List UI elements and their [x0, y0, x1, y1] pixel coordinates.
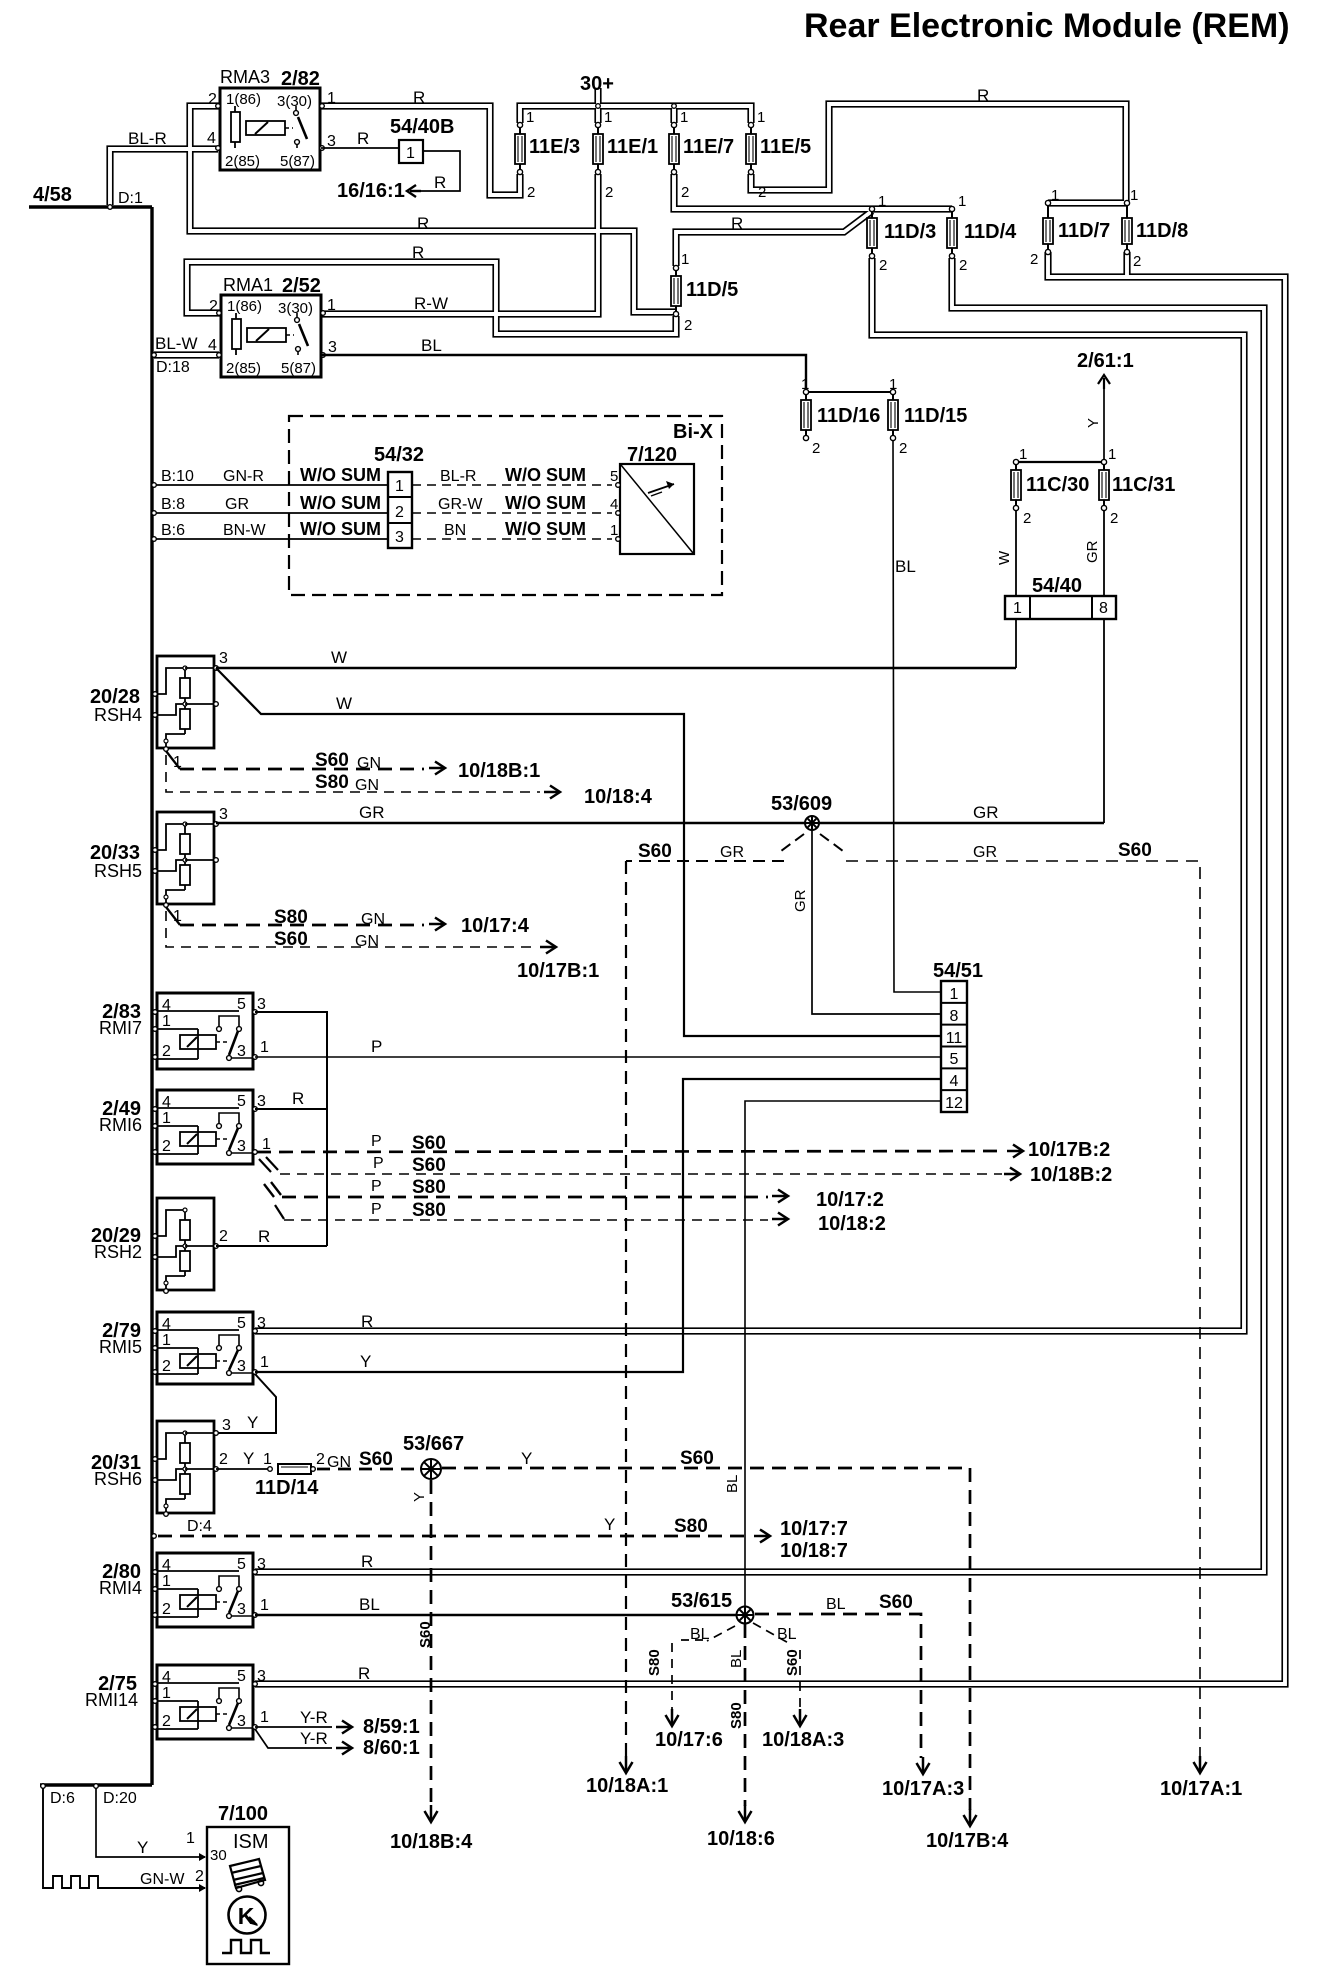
svg-text:R-W: R-W	[414, 294, 448, 313]
svg-text:BL: BL	[826, 1596, 846, 1613]
svg-text:2: 2	[162, 1358, 171, 1375]
svg-text:3: 3	[257, 1556, 266, 1573]
svg-text:2: 2	[1023, 510, 1031, 527]
wire W upper from 20/28	[216, 667, 1016, 669]
svg-text:S60: S60	[784, 1649, 801, 1676]
junction 30+ bus at 11E/1	[596, 104, 601, 109]
relay RMI5 2/79	[157, 1312, 253, 1384]
relay RMA1 2/52	[221, 295, 321, 377]
node 4/58 supply line	[29, 205, 152, 208]
fuse bridge 11D/16-11D/15	[806, 391, 893, 393]
svg-text:W/O SUM: W/O SUM	[300, 493, 381, 513]
svg-text:1: 1	[801, 376, 809, 393]
svg-text:W/O SUM: W/O SUM	[300, 519, 381, 539]
wire 30+ supply stub	[594, 88, 601, 106]
wire R from 11D/7 pin2 to relay 2/75 pin3	[255, 252, 1285, 1684]
wire R from 2/49 pin3	[255, 1108, 327, 1110]
wire R from 11E/5 pin2 to 11D/8 pin1	[751, 104, 1126, 203]
svg-text:1: 1	[1130, 187, 1138, 204]
heater RSH2 20/29	[157, 1198, 214, 1290]
svg-text:10/17A:3: 10/17A:3	[882, 1778, 964, 1800]
svg-text:2: 2	[316, 1451, 325, 1468]
svg-text:1: 1	[162, 1332, 171, 1349]
svg-text:7/120: 7/120	[627, 444, 677, 466]
wire to 16/16:1	[421, 151, 460, 191]
svg-text:D:6: D:6	[50, 1790, 75, 1807]
svg-text:S80: S80	[646, 1649, 663, 1676]
svg-text:10/18:2: 10/18:2	[818, 1213, 886, 1235]
fuse 11D/15	[892, 394, 894, 400]
wire GN-W square wave from D:6 to ISM	[43, 1788, 205, 1888]
svg-text:2: 2	[219, 1228, 228, 1245]
svg-text:R: R	[292, 1089, 304, 1108]
svg-text:11D/16: 11D/16	[817, 405, 880, 427]
svg-text:R: R	[358, 1664, 370, 1683]
wire R from 11E/7 pin2 to 11D/3 and 11D/4 pin1	[674, 174, 952, 209]
svg-text:BL: BL	[690, 1626, 710, 1643]
svg-text:1: 1	[680, 109, 688, 126]
svg-text:3: 3	[222, 1417, 231, 1434]
wire W lower from 20/28 to 54/51 pin11	[216, 668, 941, 1036]
svg-text:RSH6: RSH6	[94, 1469, 142, 1489]
dashed BL S60 from splice to 10/17A:3	[755, 1614, 921, 1758]
svg-text:10/18B:4: 10/18B:4	[390, 1831, 473, 1853]
svg-text:Y: Y	[604, 1515, 615, 1534]
svg-text:GR-W: GR-W	[438, 496, 483, 513]
svg-text:2/52: 2/52	[282, 275, 321, 297]
svg-text:10/17A:1: 10/17A:1	[1160, 1778, 1242, 1800]
svg-text:S80: S80	[728, 1702, 745, 1729]
terminal B:10 wire GN-R	[154, 484, 388, 486]
svg-text:Y: Y	[521, 1449, 532, 1468]
svg-text:2: 2	[812, 440, 820, 457]
svg-text:2: 2	[605, 184, 613, 201]
terminal B:8 wire GR	[154, 512, 388, 514]
wire GR from 20/33	[216, 822, 1104, 824]
fuse 11E/3	[519, 127, 521, 134]
svg-text:GN: GN	[357, 755, 381, 772]
svg-text:11C/31: 11C/31	[1112, 474, 1175, 496]
svg-text:K: K	[238, 1903, 255, 1929]
heater RSH5 20/33	[157, 812, 214, 904]
svg-text:10/18:4: 10/18:4	[584, 786, 653, 808]
svg-text:R: R	[357, 129, 369, 148]
svg-text:2: 2	[209, 298, 218, 315]
svg-text:2/61:1: 2/61:1	[1077, 350, 1134, 372]
svg-text:10/18:6: 10/18:6	[707, 1828, 775, 1850]
svg-text:R: R	[731, 214, 743, 233]
dashed GN S60 to splice 53/667	[317, 1468, 419, 1471]
svg-text:10/18A:3: 10/18A:3	[762, 1729, 844, 1751]
svg-text:GR: GR	[792, 889, 809, 912]
svg-text:53/609: 53/609	[771, 793, 832, 815]
svg-text:3: 3	[257, 996, 266, 1013]
wire BL from RMA1	[321, 355, 806, 390]
wire R from 20/29	[216, 1245, 327, 1247]
svg-text:11E/5: 11E/5	[760, 136, 811, 158]
svg-text:11D/5: 11D/5	[686, 279, 738, 301]
svg-text:1(86): 1(86)	[226, 91, 261, 108]
wire R from RMA1 coil pin2 to fuse 11D/5 pin2	[187, 262, 676, 334]
svg-text:GN: GN	[361, 911, 385, 928]
svg-text:S60: S60	[680, 1448, 714, 1469]
svg-text:3: 3	[219, 650, 228, 667]
svg-text:Y: Y	[247, 1413, 258, 1432]
svg-text:Y: Y	[411, 1492, 428, 1502]
svg-text:Y-R: Y-R	[300, 1729, 328, 1748]
svg-text:1: 1	[950, 986, 959, 1003]
svg-text:BL-R: BL-R	[440, 468, 476, 485]
wire P from 2/83 pin1 to 54/51 pin5	[255, 1056, 941, 1058]
svg-text:BL-W: BL-W	[155, 334, 198, 353]
wire R from RMA3 coil pin2 to fuse 11D/5 pin2	[190, 106, 676, 312]
svg-text:Rear Electronic Module (REM): Rear Electronic Module (REM)	[804, 7, 1290, 45]
fuse 11D/16	[805, 394, 807, 400]
svg-text:1: 1	[260, 1709, 269, 1726]
svg-text:10/18:7: 10/18:7	[780, 1540, 848, 1562]
fuse 11D/3	[871, 211, 873, 218]
svg-text:3: 3	[395, 529, 404, 546]
svg-text:2: 2	[219, 1451, 228, 1468]
svg-text:2: 2	[1030, 251, 1038, 268]
svg-text:11: 11	[946, 1030, 963, 1047]
junction 30+ bus at 11E/7	[672, 104, 677, 109]
svg-text:S80: S80	[412, 1177, 446, 1198]
svg-text:8: 8	[1099, 600, 1108, 617]
ISM louvre icon	[230, 1859, 265, 1892]
svg-text:10/18A:1: 10/18A:1	[586, 1775, 668, 1797]
dashed Y from 53/667 down to 10/18B:4	[430, 1480, 433, 1806]
wire GR to 54/40 pin8	[1103, 510, 1105, 596]
svg-text:53/667: 53/667	[403, 1433, 464, 1455]
svg-text:W: W	[336, 694, 352, 713]
dashed P S80 to 10/17:2	[264, 1184, 274, 1197]
svg-text:16/16:1: 16/16:1	[337, 180, 405, 202]
svg-text:1: 1	[878, 193, 886, 210]
svg-text:Y-R: Y-R	[300, 1708, 328, 1727]
wire Y-R to 8/59:1	[255, 1726, 332, 1728]
svg-text:10/17B:4: 10/17B:4	[926, 1830, 1009, 1852]
svg-text:30+: 30+	[580, 73, 614, 95]
svg-text:11E/3: 11E/3	[529, 136, 580, 158]
svg-text:P: P	[371, 1178, 382, 1195]
svg-text:30: 30	[210, 1847, 227, 1864]
wire BL from 54/51 pin12 down to splice	[745, 1101, 941, 1607]
svg-text:GR: GR	[973, 844, 997, 861]
dashed BL S80 from splice down to 10/18:6	[744, 1624, 747, 1806]
main bus wire from 4/58	[150, 207, 153, 1785]
wire GR from 54/40 down to GR line	[1103, 619, 1105, 823]
svg-text:RSH2: RSH2	[94, 1242, 142, 1262]
svg-text:2(85): 2(85)	[225, 153, 260, 170]
dashed wire GR-W to 7/120 pin4	[412, 512, 612, 514]
fuse 11E/1	[597, 127, 599, 134]
svg-text:4: 4	[208, 337, 217, 354]
svg-text:S80: S80	[315, 772, 349, 793]
wire R-W from RMA1 pin1 to fuse 11E/1 pin2	[321, 174, 598, 314]
svg-text:2/82: 2/82	[281, 68, 320, 90]
svg-text:RMI14: RMI14	[85, 1690, 138, 1710]
wire Y from 20/31 pin2	[216, 1468, 268, 1470]
white cores of hollow double-line wires	[190, 106, 676, 312]
relay RMI14 2/75	[157, 1665, 253, 1739]
svg-text:BL: BL	[421, 336, 442, 355]
svg-text:S60: S60	[274, 929, 308, 950]
svg-text:S60: S60	[879, 1592, 913, 1613]
svg-text:BL: BL	[777, 1626, 797, 1643]
svg-text:GN-R: GN-R	[223, 468, 264, 485]
svg-text:GN-W: GN-W	[140, 1871, 185, 1888]
svg-text:54/51: 54/51	[933, 960, 983, 982]
svg-text:1: 1	[1108, 446, 1116, 463]
svg-text:2: 2	[959, 257, 967, 274]
ISM square wave icon	[222, 1940, 270, 1953]
dashed S60 GN to 10/17B:1	[166, 911, 534, 947]
svg-text:R: R	[258, 1227, 270, 1246]
bus bottom to D:6 D:20	[40, 1783, 152, 1786]
relay RMA3 2/82	[220, 88, 320, 170]
dashed P S60 to 10/17B:2	[257, 1151, 1005, 1152]
svg-text:BL: BL	[359, 1595, 380, 1614]
svg-text:2: 2	[1133, 253, 1141, 270]
dashed S80 GN to 10/17:4	[166, 907, 180, 925]
svg-text:2: 2	[162, 1043, 171, 1060]
svg-text:1: 1	[406, 145, 415, 162]
svg-text:1: 1	[260, 1597, 269, 1614]
svg-text:R: R	[413, 88, 425, 107]
svg-text:5: 5	[950, 1051, 959, 1068]
dashed BL S60 from splice to 10/18A:3	[753, 1623, 792, 1645]
svg-text:R: R	[361, 1552, 373, 1571]
svg-text:1: 1	[958, 193, 966, 210]
svg-text:R: R	[417, 214, 429, 233]
wire Y from D:20 to ISM	[96, 1788, 205, 1857]
svg-text:P: P	[371, 1201, 382, 1218]
svg-text:10/18B:1: 10/18B:1	[458, 760, 540, 782]
relay RMI7 2/83	[157, 993, 253, 1069]
svg-text:54/40: 54/40	[1032, 575, 1082, 597]
svg-text:8/59:1: 8/59:1	[363, 1716, 420, 1738]
svg-text:S60: S60	[412, 1155, 446, 1176]
svg-text:3(30): 3(30)	[278, 300, 313, 317]
svg-text:3(30): 3(30)	[277, 93, 312, 110]
svg-text:P: P	[371, 1037, 382, 1056]
wire stub 11E/7 pin1	[670, 106, 677, 123]
dashed S80 GN to 10/18:4	[166, 755, 540, 792]
ISM circled K icon	[229, 1897, 266, 1934]
svg-text:S60: S60	[638, 841, 672, 862]
svg-text:S60: S60	[412, 1133, 446, 1154]
terminal B:6 wire BN-W	[154, 538, 388, 540]
svg-text:RMI6: RMI6	[99, 1115, 142, 1135]
svg-text:2: 2	[162, 1713, 171, 1730]
svg-text:2: 2	[208, 91, 217, 108]
relay RMI4 2/80	[157, 1553, 253, 1627]
svg-text:5(87): 5(87)	[281, 360, 316, 377]
svg-text:S60: S60	[1118, 840, 1152, 861]
svg-text:1: 1	[327, 297, 336, 314]
svg-text:RMA1: RMA1	[223, 275, 273, 295]
svg-text:11D/3: 11D/3	[884, 221, 936, 243]
svg-text:1: 1	[162, 1110, 171, 1127]
wire GR from splice down to 54/51 pin8	[812, 830, 941, 1014]
svg-text:10/17B:2: 10/17B:2	[1028, 1139, 1110, 1161]
wire Y from 2/79 pin1 to 54/51 pin4	[255, 1079, 941, 1372]
svg-text:B:8: B:8	[161, 496, 185, 513]
terminal D:4 dashed S80 Y to 10/17:7 10/18:7	[152, 1534, 157, 1539]
svg-text:W/O SUM: W/O SUM	[300, 465, 381, 485]
svg-text:S80: S80	[674, 1516, 708, 1537]
wire R from 11D/5 pin1 to 11D/3 pin1	[676, 211, 872, 266]
svg-text:1: 1	[1019, 446, 1027, 463]
svg-text:BL: BL	[728, 1650, 745, 1668]
svg-text:2: 2	[684, 317, 692, 334]
svg-text:Y: Y	[1085, 418, 1102, 428]
svg-text:2(85): 2(85)	[226, 360, 261, 377]
svg-text:12: 12	[945, 1095, 963, 1112]
svg-text:8/60:1: 8/60:1	[363, 1737, 420, 1759]
svg-text:3: 3	[257, 1093, 266, 1110]
svg-text:RSH5: RSH5	[94, 861, 142, 881]
svg-text:W/O SUM: W/O SUM	[505, 519, 586, 539]
svg-text:R: R	[977, 86, 989, 105]
dashed S60 GR right branch to 10/17A:1	[820, 834, 843, 851]
svg-text:3: 3	[257, 1668, 266, 1685]
svg-text:W/O SUM: W/O SUM	[505, 493, 586, 513]
relay RMI6 2/49	[157, 1090, 253, 1164]
svg-text:GR: GR	[1084, 540, 1101, 563]
svg-text:1: 1	[526, 109, 534, 126]
dashed S60 GR left down to 10/18A:1	[625, 861, 627, 1756]
svg-text:W: W	[996, 550, 1013, 565]
svg-text:1: 1	[263, 1451, 272, 1468]
svg-text:Y: Y	[360, 1352, 371, 1371]
svg-text:11C/30: 11C/30	[1026, 474, 1089, 496]
svg-text:BL: BL	[724, 1475, 741, 1493]
svg-text:RMA3: RMA3	[220, 67, 270, 87]
wire stub 11D/8 pin2	[1123, 252, 1130, 277]
svg-text:1: 1	[162, 1013, 171, 1030]
svg-text:GR: GR	[973, 803, 999, 822]
svg-text:2: 2	[1110, 510, 1118, 527]
wire W to 54/40 pin1	[1015, 510, 1017, 596]
wire Y branch to RSH6 pin3	[216, 1374, 276, 1433]
svg-text:11D/14: 11D/14	[255, 1477, 319, 1499]
svg-text:D:18: D:18	[156, 359, 190, 376]
svg-text:2: 2	[527, 184, 535, 201]
svg-text:2: 2	[879, 257, 887, 274]
heater RSH4 20/28	[157, 656, 214, 748]
svg-text:5(87): 5(87)	[280, 153, 315, 170]
svg-text:B:6: B:6	[161, 522, 185, 539]
svg-text:1: 1	[395, 478, 404, 495]
svg-text:R: R	[361, 1312, 373, 1331]
svg-text:1: 1	[681, 251, 689, 268]
svg-text:RSH4: RSH4	[94, 705, 142, 725]
svg-text:10/17B:1: 10/17B:1	[517, 960, 599, 982]
svg-text:2: 2	[899, 440, 907, 457]
wire bridge 11D/7-11D/8 pin1	[1048, 199, 1127, 206]
svg-text:BN-W: BN-W	[223, 522, 267, 539]
svg-text:1: 1	[889, 376, 897, 393]
wire BL-R from D:1 to RMA3 pin4	[110, 149, 218, 205]
svg-text:W/O SUM: W/O SUM	[505, 465, 586, 485]
dashed wire BN to 7/120 pin1	[412, 538, 612, 540]
svg-text:B:10: B:10	[161, 468, 194, 485]
svg-text:11D/15: 11D/15	[904, 405, 967, 427]
svg-text:4/58: 4/58	[33, 184, 72, 206]
dashed S60 GR left branch	[781, 834, 804, 851]
svg-text:1(86): 1(86)	[227, 298, 262, 315]
svg-text:P: P	[373, 1155, 384, 1172]
wire R from RMA3 pin1 to fuse 11E/3 pin2	[321, 106, 520, 195]
svg-text:BN: BN	[444, 522, 466, 539]
svg-text:W: W	[331, 648, 347, 667]
svg-text:ISM: ISM	[233, 1831, 269, 1853]
svg-text:7/100: 7/100	[218, 1803, 268, 1825]
svg-text:1: 1	[262, 1136, 271, 1153]
svg-text:1: 1	[162, 1685, 171, 1702]
svg-text:2: 2	[195, 1868, 204, 1885]
wire stub 11E/1 pin1	[594, 106, 601, 123]
svg-text:GR: GR	[720, 844, 744, 861]
svg-text:4: 4	[950, 1073, 959, 1090]
heater RSH6 20/31	[157, 1421, 214, 1513]
svg-text:11E/7: 11E/7	[683, 136, 734, 158]
svg-text:S80: S80	[412, 1200, 446, 1221]
wire R from 2/83 pin3 down	[255, 1012, 327, 1246]
fuse 11D/7	[1047, 205, 1049, 218]
svg-text:2: 2	[681, 184, 689, 201]
svg-text:10/17:7: 10/17:7	[780, 1518, 848, 1540]
svg-text:3: 3	[219, 806, 228, 823]
wire R from 11D/4 pin2 to relay 2/80 pin3	[255, 258, 1264, 1572]
svg-text:Y: Y	[243, 1449, 254, 1468]
svg-text:P: P	[371, 1133, 382, 1150]
svg-text:BL-R: BL-R	[128, 129, 167, 148]
svg-text:1: 1	[604, 109, 612, 126]
svg-text:S80: S80	[274, 907, 308, 928]
svg-text:1: 1	[260, 1039, 269, 1056]
dashed P S60 to 10/18B:2	[259, 1159, 271, 1172]
fuse 11D/4	[951, 211, 953, 218]
svg-text:1: 1	[1013, 600, 1022, 617]
dashed P S80 to 10/18:2	[275, 1205, 284, 1219]
svg-text:2: 2	[162, 1601, 171, 1618]
svg-text:GN: GN	[355, 933, 379, 950]
fuse 11C/30	[1015, 464, 1017, 470]
wire R from 11D/3 pin2 to relay 2/79 pin3	[255, 258, 1244, 1331]
dashed BL S80 from splice to 10/17:6	[707, 1626, 735, 1641]
fuse 11D/8	[1126, 205, 1128, 218]
svg-text:3: 3	[328, 339, 337, 356]
svg-text:S60: S60	[359, 1449, 393, 1470]
svg-text:1: 1	[186, 1830, 195, 1847]
svg-text:D:1: D:1	[118, 190, 143, 207]
bridge 11C/30-11C/31	[1016, 461, 1104, 463]
svg-text:RMI4: RMI4	[99, 1578, 142, 1598]
svg-text:11D/8: 11D/8	[1136, 220, 1188, 242]
svg-text:RMI7: RMI7	[99, 1018, 142, 1038]
svg-text:D:4: D:4	[187, 1518, 212, 1535]
svg-text:2: 2	[395, 504, 404, 521]
svg-text:2: 2	[758, 184, 766, 201]
svg-text:Y: Y	[137, 1838, 148, 1857]
svg-text:1: 1	[757, 109, 765, 126]
svg-text:54/40B: 54/40B	[390, 116, 455, 138]
svg-text:11D/7: 11D/7	[1058, 220, 1110, 242]
fuse 11D/14	[278, 1464, 311, 1474]
